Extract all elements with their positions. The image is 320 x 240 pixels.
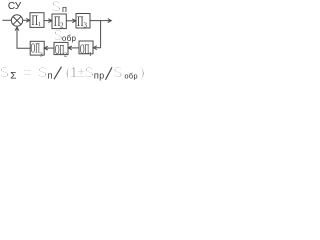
svg-text:ОП: ОП	[80, 43, 90, 57]
wire OP1 to OP2	[69, 47, 79, 49]
svg-text:1: 1	[89, 52, 92, 58]
big text: half-scale eroded group	[0, 0, 147, 82]
wire circle to P1	[23, 19, 29, 21]
svg-text:S: S	[53, 28, 62, 46]
svg-text:S: S	[0, 65, 9, 83]
label P3	[77, 13, 84, 30]
svg-text:=: =	[23, 65, 33, 83]
arrowhead output	[108, 19, 112, 23]
block OP1	[79, 41, 93, 54]
svg-text:ОП: ОП	[55, 44, 65, 58]
svg-text:2: 2	[60, 22, 64, 30]
svg-text:обр: обр	[62, 35, 77, 44]
svg-text:П: П	[31, 12, 38, 29]
svg-text:1: 1	[38, 22, 41, 28]
svg-text:2: 2	[64, 52, 67, 58]
label P1	[31, 12, 38, 29]
svg-text:3: 3	[40, 52, 43, 58]
small text: half-scale lightly eroded group	[8, 1, 138, 83]
svg-text:Σ: Σ	[10, 72, 16, 83]
block OP3	[30, 41, 44, 55]
label OP3	[31, 42, 41, 56]
block P3	[76, 14, 90, 29]
wire P2 to P3	[66, 20, 75, 22]
arrowhead into OP3	[44, 46, 48, 50]
arrowhead up into circle	[15, 27, 19, 31]
wire output	[90, 20, 111, 22]
formula slash 1	[54, 67, 62, 80]
wire OP3 to summing junction	[17, 28, 30, 48]
arrowhead into P3	[72, 19, 76, 23]
svg-text:П: П	[77, 13, 84, 30]
summing junction X	[13, 17, 21, 25]
arrowhead into P1	[26, 18, 30, 22]
block OP2	[54, 42, 68, 54]
label OP1	[80, 43, 90, 57]
svg-text:): )	[137, 65, 147, 83]
svg-text:п: п	[47, 72, 52, 82]
wire P1 to P2	[44, 20, 51, 22]
wire feedback tap	[94, 21, 100, 48]
svg-text:3: 3	[83, 21, 87, 29]
svg-text:П: П	[54, 13, 61, 30]
svg-text:СУ: СУ	[8, 1, 22, 12]
summing junction circle	[11, 15, 22, 26]
svg-text:S: S	[38, 65, 48, 83]
svg-text:S: S	[84, 65, 94, 83]
block P2	[52, 14, 66, 29]
arrowhead into OP2	[68, 46, 72, 50]
wire OP2 to OP3	[45, 47, 54, 49]
formula slash 2	[106, 67, 113, 80]
wire input	[3, 19, 12, 21]
block P1	[30, 13, 44, 28]
label P2	[54, 13, 61, 30]
arrowhead into P2	[48, 19, 52, 23]
svg-text:S: S	[113, 65, 123, 83]
label OP2	[55, 44, 65, 58]
svg-text:ОП: ОП	[31, 42, 41, 56]
arrowhead into OP1	[93, 46, 97, 50]
svg-text:обр: обр	[124, 73, 138, 82]
svg-text:пр: пр	[94, 72, 105, 82]
svg-text:п: п	[62, 5, 67, 15]
